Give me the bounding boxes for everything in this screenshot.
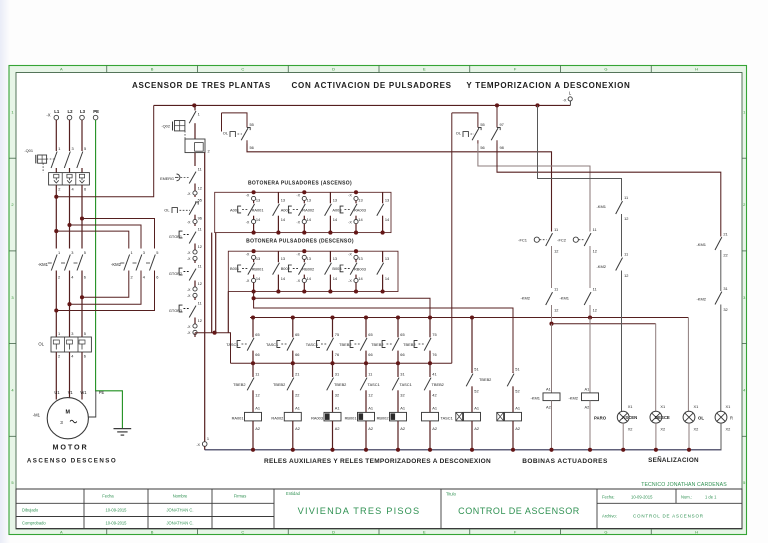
aux contact -KM1 21-22 (696, 232, 727, 292)
relay contact RA001 (273, 192, 286, 234)
svg-text:E: E (423, 530, 426, 535)
node bus Q02 drop (192, 103, 196, 107)
svg-text:2: 2 (58, 186, 60, 191)
aux contact TBEB2 col 6 (424, 363, 444, 412)
svg-text:U1: U1 (54, 390, 60, 395)
wire KM1 outputs (56, 271, 82, 338)
svg-text:-FC2: -FC2 (557, 238, 567, 243)
wire phase L3 upper (81, 120, 83, 151)
wire lamp1 feed (622, 410, 624, 412)
svg-text:10-09-2015: 10-09-2015 (106, 508, 128, 513)
svg-text:32: 32 (723, 307, 727, 312)
aux contact TBEB2 col 1 (233, 363, 259, 412)
aux contact TASC1 col 4 (360, 363, 380, 412)
svg-text:TBEB2: TBEB2 (432, 382, 444, 387)
svg-text:75: 75 (335, 332, 339, 337)
svg-text:2: 2 (131, 274, 133, 279)
rail timer top y317.5 (250, 317, 688, 319)
svg-text:-X: -X (563, 98, 567, 103)
svg-text:12: 12 (554, 308, 558, 313)
svg-text:Nombre: Nombre (173, 494, 188, 499)
svg-text:11: 11 (198, 227, 202, 232)
svg-text:-X: -X (187, 221, 191, 225)
svg-text:TECNICO JONATHAN CARDENAS: TECNICO JONATHAN CARDENAS (641, 482, 727, 488)
svg-text:OL: OL (38, 342, 44, 347)
svg-text:41: 41 (432, 371, 436, 376)
svg-text:65: 65 (255, 332, 259, 337)
node L1 control tap (54, 195, 58, 199)
svg-text:X2: X2 (660, 427, 665, 432)
relay coil RA003 (311, 406, 341, 452)
svg-text:-X: -X (348, 220, 352, 224)
svg-text:21: 21 (295, 371, 299, 376)
svg-text:OL: OL (456, 131, 462, 136)
svg-text:JONATHAN C.: JONATHAN C. (167, 508, 194, 513)
svg-text:3: 3 (60, 420, 63, 425)
svg-text:96: 96 (198, 216, 202, 221)
aux contact -KM2 col FC1 (520, 287, 558, 326)
svg-text:-KM2: -KM2 (596, 264, 606, 269)
svg-text:A1: A1 (400, 406, 405, 411)
svg-text:5: 5 (84, 146, 86, 151)
svg-text:OL: OL (698, 416, 704, 421)
svg-text:2: 2 (58, 274, 60, 279)
svg-text:31: 31 (400, 371, 404, 376)
svg-text:X2: X2 (694, 427, 699, 432)
svg-text:A: A (60, 67, 63, 72)
wire KM2 crossover merge 3 (56, 271, 154, 311)
svg-text:51: 51 (474, 366, 478, 371)
svg-text:D: D (332, 67, 335, 72)
svg-text:31: 31 (335, 371, 339, 376)
svg-text:OL: OL (223, 131, 229, 136)
svg-text:A2: A2 (546, 404, 551, 409)
svg-text:G: G (604, 530, 607, 535)
svg-text:-X: -X (46, 113, 50, 118)
wire L3 mid (81, 185, 83, 249)
svg-text:-X: -X (246, 220, 250, 224)
wires OL to motor (56, 352, 82, 400)
svg-text:-X: -X (187, 288, 191, 292)
svg-text:22: 22 (295, 393, 299, 398)
svg-text:TASC1: TASC1 (306, 342, 318, 347)
title block header labels (102, 491, 456, 499)
svg-text:Dibujado: Dibujado (22, 508, 39, 513)
svg-text:A003: A003 (332, 207, 341, 212)
svg-text:6: 6 (84, 354, 86, 359)
svg-text:Fecha: Fecha (102, 494, 114, 499)
pushbutton B002 (281, 249, 315, 293)
rail descenso out y298 (254, 292, 430, 318)
svg-text:55: 55 (250, 122, 254, 127)
svg-text:RA001: RA001 (252, 208, 264, 213)
svg-text:A2: A2 (368, 426, 373, 431)
breaker -Q02 trip unit box (185, 131, 210, 154)
svg-text:21: 21 (723, 232, 727, 237)
svg-text:BOTONERA PULSADORES (DESCENSO): BOTONERA PULSADORES (DESCENSO) (246, 239, 354, 245)
limit contact GTOP1 (169, 227, 202, 264)
node rail298 start (252, 296, 256, 300)
svg-text:L2: L2 (67, 109, 73, 114)
svg-text:-X: -X (187, 251, 191, 255)
svg-text:11: 11 (198, 264, 202, 269)
svg-text:-X: -X (296, 279, 300, 283)
svg-text:RB002: RB002 (377, 416, 389, 421)
relay contact RA002 (325, 192, 338, 234)
svg-text:ASCENSOR DE TRES PLANTAS: ASCENSOR DE TRES PLANTAS CON ACTIVACION … (132, 81, 631, 90)
aux contact -KM2 right (596, 252, 628, 412)
svg-text:A2: A2 (515, 426, 520, 431)
svg-text:13: 13 (307, 197, 311, 202)
svg-text:1: 1 (198, 112, 200, 117)
svg-text:TBEB2: TBEB2 (371, 342, 383, 347)
svg-text:A001: A001 (230, 207, 239, 212)
svg-text:51: 51 (515, 366, 519, 371)
overload relay OL block (38, 331, 91, 359)
svg-text:MOTOR: MOTOR (52, 443, 88, 452)
svg-text:-X: -X (187, 331, 191, 335)
svg-text:-Q02: -Q02 (161, 124, 170, 129)
lamp aux (715, 404, 733, 450)
wire Q02 out (194, 153, 196, 166)
wire L2 mid (69, 185, 71, 249)
svg-text:B: B (151, 67, 154, 72)
svg-text:BOBINAS ACTUADORES: BOBINAS ACTUADORES (522, 458, 608, 465)
timer coil column x=472 (456, 315, 492, 451)
svg-text:11: 11 (198, 167, 202, 172)
svg-text:-X: -X (296, 194, 300, 198)
svg-text:Fecha:: Fecha: (602, 495, 615, 500)
wire tap L1-KM2 (56, 231, 129, 248)
svg-text:12: 12 (368, 393, 372, 398)
svg-text:10-09-2015: 10-09-2015 (106, 521, 128, 526)
svg-text:PE: PE (99, 390, 105, 395)
svg-text:-KM1: -KM1 (530, 396, 540, 401)
node bus OL2 drop (495, 103, 499, 107)
bottom rail neutral (205, 449, 722, 451)
svg-text:11: 11 (593, 287, 597, 292)
wire phase L2 upper (69, 120, 71, 151)
breaker -Q02 contact (161, 105, 199, 139)
svg-text:65: 65 (295, 332, 299, 337)
timer contact TBEB2 col 6 (403, 315, 436, 365)
svg-text:6: 6 (84, 274, 86, 279)
wire L1 mid with taps (55, 185, 57, 249)
svg-text:1: 1 (58, 250, 60, 255)
svg-text:66: 66 (400, 352, 404, 357)
thermal OL contact 55-56 (164, 198, 202, 221)
svg-text:11: 11 (624, 252, 628, 257)
svg-text:13: 13 (281, 256, 285, 261)
limit contact GTOP3 (169, 301, 202, 338)
svg-text:A1: A1 (474, 406, 479, 411)
svg-text:BOTONERA PULSADORES (ASCENSO): BOTONERA PULSADORES (ASCENSO) (248, 180, 352, 186)
svg-text:1: 1 (58, 331, 60, 336)
title block row Dibujado (22, 508, 194, 513)
svg-text:66: 66 (295, 352, 299, 357)
svg-text:12: 12 (593, 308, 597, 313)
motor terminal labels U1 V1 W1 PE (54, 390, 104, 395)
frame column ticks and letters (60, 66, 698, 535)
svg-text:13: 13 (385, 256, 389, 261)
svg-text:-X: -X (187, 294, 191, 298)
wire control feed to bus riser (56, 105, 153, 196)
svg-text:-X: -X (348, 252, 352, 256)
svg-text:2: 2 (58, 354, 60, 359)
svg-text:76: 76 (432, 352, 436, 357)
timer contact TASC1 col 1 (226, 315, 259, 365)
svg-text:TBEB2: TBEB2 (479, 377, 491, 382)
svg-text:55: 55 (480, 122, 484, 127)
svg-text:-FC1: -FC1 (518, 238, 528, 243)
svg-text:G: G (604, 67, 607, 72)
svg-text:11: 11 (593, 227, 597, 232)
svg-text:X1: X1 (628, 404, 633, 409)
svg-text:-X: -X (187, 257, 191, 261)
svg-text:3: 3 (71, 331, 73, 336)
svg-text:65: 65 (400, 332, 404, 337)
relay contact RB003 (377, 251, 390, 293)
svg-text:OL: OL (164, 208, 170, 213)
wire control column to relay rail (195, 333, 231, 364)
botonera descenso box (228, 251, 398, 291)
svg-text:X1: X1 (694, 404, 699, 409)
title block grid (16, 489, 742, 529)
svg-text:PE: PE (93, 109, 99, 114)
wire descenso return (227, 292, 229, 333)
svg-text:L3: L3 (80, 109, 86, 114)
node lamp drops (621, 448, 691, 452)
frame row ticks and numbers (9, 109, 747, 485)
svg-text:TBEB2: TBEB2 (403, 342, 415, 347)
lamp OL (683, 404, 704, 450)
svg-text:-KM1: -KM1 (696, 242, 706, 247)
wire tap L2-KM2 (70, 225, 142, 249)
lamp ASCEN (617, 404, 637, 450)
svg-text:12: 12 (255, 393, 259, 398)
svg-text:11: 11 (198, 301, 202, 306)
svg-text:11: 11 (554, 227, 558, 232)
svg-text:1 de 1: 1 de 1 (705, 495, 717, 500)
svg-text:76: 76 (335, 352, 339, 357)
wire lamp4 corner (720, 423, 722, 450)
svg-text:V1: V1 (68, 390, 74, 395)
rail coil top y363.3 (231, 362, 452, 364)
relay coil RA001 (232, 406, 262, 452)
svg-text:E: E (423, 67, 426, 72)
pushbutton A003 (332, 190, 366, 234)
svg-text:A002: A002 (281, 207, 290, 212)
svg-text:11: 11 (624, 195, 628, 200)
wire KM2 crossover merge 2 (70, 271, 142, 305)
svg-text:VIVIENDA TRES PISOS: VIVIENDA TRES PISOS (298, 506, 421, 516)
node bus KM-aux drop (535, 103, 539, 107)
svg-text:-X: -X (246, 279, 250, 283)
svg-text:1: 1 (131, 250, 133, 255)
svg-text:13: 13 (358, 256, 362, 261)
bus terminal -X L (563, 91, 573, 106)
svg-text:RA003: RA003 (311, 416, 323, 421)
svg-text:TBEB2: TBEB2 (233, 382, 245, 387)
svg-text:12: 12 (593, 249, 597, 254)
svg-text:A1: A1 (432, 406, 437, 411)
svg-text:A1: A1 (295, 406, 300, 411)
svg-text:Comprobado: Comprobado (22, 521, 46, 526)
svg-text:11: 11 (368, 371, 372, 376)
svg-text:2: 2 (208, 149, 210, 154)
title block row Comprobado (22, 521, 194, 526)
svg-text:R: R (730, 416, 733, 421)
rail y308 to timer coil (254, 298, 513, 372)
rail OL2-98 to lamp4 column (497, 144, 721, 237)
svg-text:RA002: RA002 (302, 208, 314, 213)
aux contact -KM1 upper right (596, 195, 628, 257)
svg-text:10-09-2015: 10-09-2015 (631, 495, 653, 500)
wire ascenso return B (215, 233, 217, 333)
pushbutton A002 (281, 190, 315, 234)
svg-text:3: 3 (143, 250, 145, 255)
node relay feed (213, 331, 217, 335)
rail OL left to FC1 (247, 144, 552, 232)
svg-text:C: C (241, 530, 244, 535)
svg-text:W1: W1 (80, 390, 87, 395)
svg-text:D: D (332, 530, 335, 535)
svg-text:75: 75 (432, 332, 436, 337)
svg-text:-M1: -M1 (33, 413, 41, 418)
timer contact TASC1 col 2 (266, 315, 299, 365)
rail OL2-56 to FC2 (478, 144, 590, 232)
svg-text:X1: X1 (660, 404, 665, 409)
svg-text:12: 12 (624, 216, 628, 221)
svg-text:11: 11 (554, 287, 558, 292)
thermal contact OL left 55-56 (222, 113, 254, 150)
svg-text:A2: A2 (295, 426, 300, 431)
feeder from bus to coil rail (451, 113, 453, 363)
title block right cells (602, 495, 717, 519)
pushbutton B001 (230, 249, 264, 293)
svg-text:A1: A1 (335, 406, 340, 411)
svg-text:42: 42 (432, 393, 436, 398)
svg-text:Titulo: Titulo (446, 492, 457, 497)
svg-text:ASCENSO DESCENSO: ASCENSO DESCENSO (27, 458, 117, 465)
wire KM2 crossover merge 1 (82, 271, 129, 298)
svg-text:RB001: RB001 (345, 416, 357, 421)
svg-text:-KM2: -KM2 (568, 396, 578, 401)
ground symbol (114, 429, 132, 436)
svg-text:12: 12 (198, 186, 202, 191)
svg-text:ASCEN: ASCEN (622, 415, 637, 420)
svg-text:RB003: RB003 (354, 267, 366, 272)
svg-text:5: 5 (84, 331, 86, 336)
wire PE conductor (96, 120, 123, 429)
svg-text:A2: A2 (474, 426, 479, 431)
timer contact TASC1 col 3 (306, 315, 339, 365)
svg-text:Archivo:: Archivo: (602, 514, 617, 519)
svg-text:13: 13 (281, 197, 285, 202)
contactor -KM2 main contacts (111, 250, 158, 279)
svg-text:-KM1: -KM1 (38, 262, 49, 267)
svg-text:RA002: RA002 (271, 416, 283, 421)
svg-text:A1: A1 (515, 406, 520, 411)
terminal strip -X L1 L2 L3 PE (46, 109, 99, 120)
svg-text:13: 13 (307, 256, 311, 261)
svg-text:A2: A2 (585, 404, 590, 409)
svg-text:-Q01: -Q01 (24, 148, 33, 153)
svg-text:1: 1 (207, 436, 209, 441)
wire phase L1 upper (55, 120, 57, 151)
svg-text:5: 5 (84, 250, 86, 255)
wire lamp3 drop (687, 318, 689, 412)
svg-text:12: 12 (198, 244, 202, 249)
neutral riser from Q02 (204, 153, 206, 442)
wire ascenso return A (211, 233, 213, 333)
svg-text:97: 97 (500, 122, 504, 127)
svg-text:66: 66 (368, 352, 372, 357)
svg-text:-X: -X (348, 194, 352, 198)
svg-text:EMERG: EMERG (160, 177, 174, 181)
timer coil column x=513 (497, 366, 522, 452)
svg-text:B: B (151, 530, 154, 535)
terminal -X 12a (187, 191, 197, 197)
circuit breaker -Q01 (24, 146, 86, 173)
svg-text:Firmas: Firmas (234, 494, 247, 499)
sheet inner frame (16, 73, 742, 530)
svg-text:52: 52 (515, 389, 519, 394)
motor PE stub (88, 391, 95, 417)
svg-text:-KM2: -KM2 (111, 262, 122, 267)
lamp DESCE (650, 404, 670, 450)
limit switch -FC2 (557, 227, 597, 288)
node merge L2 (67, 302, 71, 306)
svg-text:32: 32 (400, 393, 404, 398)
relay coil TASC1 (422, 406, 453, 452)
motor M1 3-phase (33, 398, 89, 439)
svg-text:66: 66 (255, 352, 259, 357)
svg-text:TBEB2: TBEB2 (273, 382, 285, 387)
svg-text:TASC1: TASC1 (368, 382, 380, 387)
svg-text:-X: -X (187, 192, 191, 196)
svg-text:X2: X2 (628, 427, 633, 432)
svg-text:31: 31 (723, 286, 727, 291)
svg-text:RB002: RB002 (302, 267, 314, 272)
contactor -KM1 main contacts (38, 250, 86, 279)
svg-text:A2: A2 (400, 426, 405, 431)
svg-text:-KM2: -KM2 (696, 297, 706, 302)
svg-text:A2: A2 (432, 426, 437, 431)
svg-text:H: H (695, 67, 698, 72)
aux contact -KM1 col FC2 (559, 287, 596, 320)
relay coil RB002 (377, 406, 407, 452)
svg-text:CONTROL DE ASCENSOR: CONTROL DE ASCENSOR (633, 514, 704, 519)
svg-text:12: 12 (198, 281, 202, 286)
relay coil RB001 (345, 406, 375, 452)
svg-text:B001: B001 (230, 266, 239, 271)
svg-text:13: 13 (333, 197, 337, 202)
svg-text:13: 13 (256, 256, 260, 261)
svg-text:13: 13 (333, 256, 337, 261)
svg-text:TBEB2: TBEB2 (339, 342, 351, 347)
node merge L3 (80, 295, 84, 299)
wire tap L3-KM2 (82, 219, 155, 249)
svg-text:TASC1: TASC1 (266, 342, 278, 347)
svg-text:-X: -X (246, 194, 250, 198)
svg-text:L1: L1 (54, 109, 60, 114)
svg-text:A: A (60, 530, 63, 535)
relay contact RB001 (273, 251, 286, 293)
svg-text:98: 98 (500, 145, 504, 150)
svg-text:TBEB2: TBEB2 (334, 382, 346, 387)
svg-text:5: 5 (156, 250, 158, 255)
